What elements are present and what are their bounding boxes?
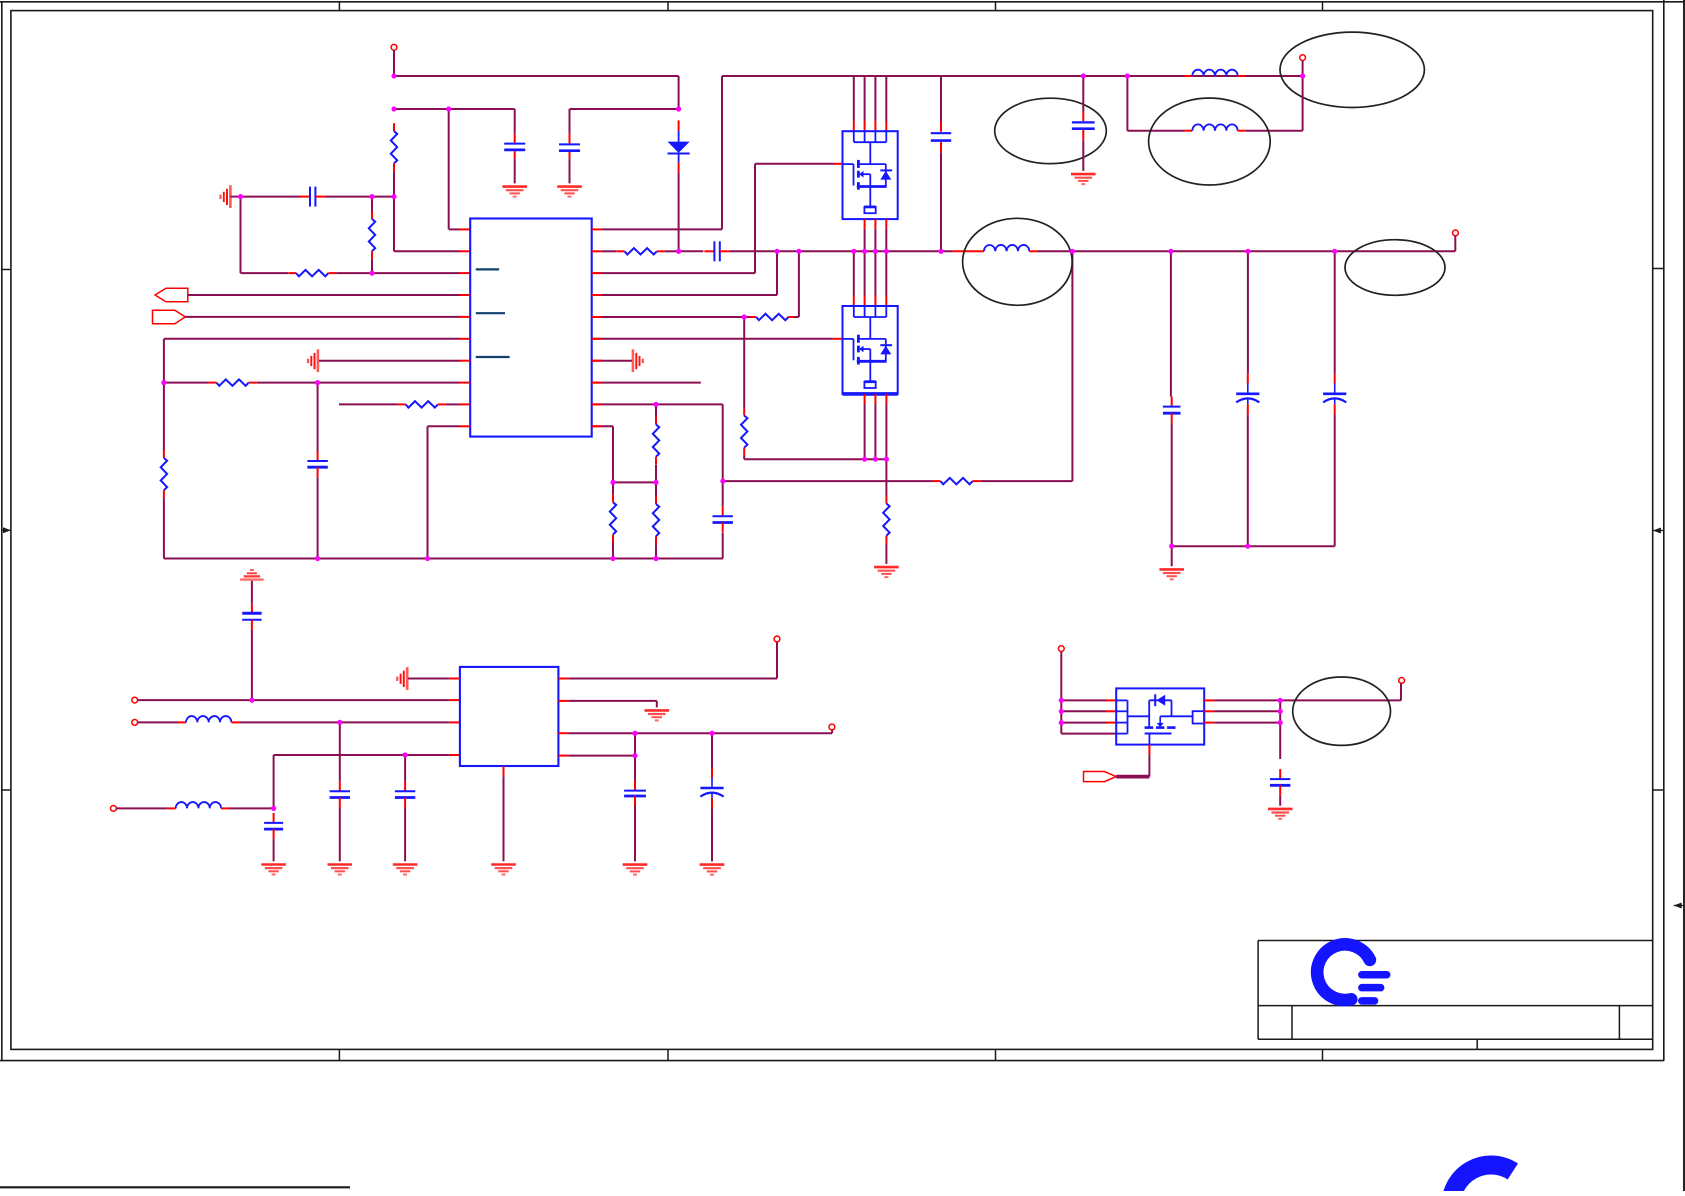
wire C12 risers [404, 755, 406, 861]
inductor L2 humps [1184, 124, 1245, 130]
wire U1 pin16 gate net Q2 [592, 338, 843, 340]
junction dot J35 [1168, 249, 1173, 254]
junction dot J46 [632, 753, 637, 758]
junction dot J36 [1245, 249, 1250, 254]
wire x1280.2 down [1279, 700, 1281, 759]
ground bars G9 [393, 865, 418, 875]
wire L4 to U2 pin3 [239, 721, 460, 723]
junction dot J27 [720, 479, 725, 484]
ellipse E5 [1345, 240, 1445, 296]
zone tick top 4 [1322, 2, 1324, 11]
U1 internal dash 2 [476, 312, 505, 314]
inductor L3 humps [976, 245, 1037, 251]
wire AGND4 to U2 pin1 [408, 678, 460, 680]
wire top rail right segment y=76 [722, 75, 1303, 77]
wire G7 stub [1171, 546, 1173, 566]
wire x635 link [634, 733, 636, 755]
wire T6 to L5 [116, 807, 167, 809]
wire riser x=1127.4 [1126, 76, 1128, 131]
wire C11 risers [339, 722, 341, 861]
U1 internal dash 1 [476, 268, 499, 270]
zone tick bottom 1 [338, 1049, 340, 1060]
capacitor C2 x=569.5 [559, 109, 580, 183]
wire R8 risers [743, 317, 745, 459]
offpage connector tag3 [1084, 772, 1117, 782]
junction dot J50 [1278, 698, 1283, 703]
capacitor C10 plates [242, 603, 261, 630]
junction dot J16 [774, 249, 779, 254]
wire T2 stub [1302, 61, 1304, 77]
ground bars G13 [700, 865, 725, 875]
logo C mark [1317, 944, 1370, 1000]
wire U1 pin10 from below [428, 426, 471, 558]
junction dot J41 [337, 720, 342, 725]
partial next-page rule bottom left [0, 1186, 350, 1188]
wire L1 leads [1127, 75, 1302, 77]
wire R7 riser x=798.9 [744, 251, 799, 317]
logo bar 2 [1358, 984, 1384, 992]
wire pin12 to R6 [602, 250, 617, 252]
resistor R2 zigzag [369, 211, 375, 259]
resistor R9 zigzag [653, 417, 659, 465]
wire R4 to U1 pin8 [257, 382, 471, 384]
capacitor C3 x=941 [931, 76, 951, 251]
AGND4 bars [397, 667, 407, 690]
zone tick bottom 4 [1322, 1049, 1324, 1060]
logo bar 1 [1358, 971, 1390, 979]
wire L3 to output rail [1037, 250, 1455, 252]
junction dot J12 [425, 556, 430, 561]
junction dot J8 [369, 271, 374, 276]
capacitor C15 plates [700, 768, 723, 809]
wire U1 pin14 to riser x=777 [592, 251, 777, 295]
wire U1 pin19 feedback [592, 404, 723, 481]
terminal T9 [1058, 646, 1064, 652]
wire R11 to rail [655, 544, 657, 558]
ground bars G8 [328, 865, 353, 875]
IC U2 box [460, 667, 559, 766]
logo bar 3 [1358, 997, 1378, 1005]
junction dot J33 [1300, 73, 1305, 78]
zone tick left upper [2, 269, 11, 271]
title block lines [1258, 941, 1653, 1050]
wire AGND2 to U1 pin7 [319, 360, 470, 362]
resistor R1 zigzag [391, 123, 397, 171]
ground bars G5 [874, 567, 899, 577]
junction dot J4 [446, 106, 451, 111]
junction dot J22 [938, 249, 943, 254]
junction dot J20 [873, 249, 878, 254]
wire T10 riser [1400, 683, 1402, 700]
capacitor C4 x=1083.3 [1072, 76, 1095, 171]
junction dot J2 [391, 106, 396, 111]
AGND1 bars [221, 185, 231, 208]
resistor R10 vertical x=613 [612, 482, 614, 494]
capacitor C13 plates [264, 813, 283, 839]
capacitor C5 plates [1163, 397, 1181, 424]
wire C16 lower [1279, 796, 1281, 806]
wire T3 riser [1454, 236, 1456, 252]
junction dot J1 [391, 73, 396, 78]
wire R5 to U1 pin9 [446, 403, 470, 405]
bottom rail dots [0, 0, 1, 1]
junction dot J34 [1070, 249, 1075, 254]
node dots y482.4 [0, 0, 1, 1]
capacitor C17 plates [300, 187, 325, 207]
junction dot J40 [249, 698, 254, 703]
zone tick top 1 [338, 2, 340, 11]
zone tick top 3 [995, 2, 997, 11]
terminal T5 [132, 720, 138, 726]
IC U1 main controller box [470, 219, 592, 437]
ground bars G6 [1071, 174, 1096, 184]
wire C8 risers [722, 481, 724, 558]
wire R9 to node y482.4 [655, 465, 657, 482]
wire R6 to node [665, 250, 679, 252]
resistor R10 zigzag [610, 494, 616, 542]
wire R10 to rail [612, 543, 614, 559]
ground bars G7 [1159, 569, 1184, 579]
junction dot J15 [676, 249, 681, 254]
wire U2 right pin8 row y=755.6 [558, 755, 635, 757]
zone tick top 2 [667, 2, 669, 11]
ground bars G10 [261, 865, 286, 875]
wire L2 leads [1127, 76, 1302, 131]
wire Q2 drain leads [854, 251, 887, 306]
resistor R3 zigzag [288, 270, 336, 276]
wire y=109 segment B [570, 108, 679, 110]
wire row y=755 to U2 pin4 [274, 755, 460, 808]
capacitor C7 plates [1323, 374, 1346, 415]
junction dot J19 [862, 249, 867, 254]
offpage connector tag2 (right arrow) [153, 310, 186, 324]
resistor R11 zigzag [653, 496, 659, 544]
wire stub to R5 [339, 403, 398, 405]
junction dot J5 [676, 106, 681, 111]
inductor L5 humps [168, 802, 229, 808]
zone tick left lower [2, 789, 11, 791]
capacitor C16 plates [1270, 769, 1290, 795]
capacitor C6 plates [1236, 374, 1259, 415]
node VIN junction dots [0, 0, 1, 1]
wire Q2 source leads [865, 394, 887, 459]
capacitor C8 plates [713, 506, 733, 532]
wire Q3 right pins [1204, 700, 1401, 722]
junction dot J18 [851, 249, 856, 254]
U1 pin stubs right side [592, 273, 602, 426]
inductor L1 humps [1184, 70, 1245, 76]
wire chassis branch upper [251, 581, 253, 604]
junction dot J17 [796, 249, 801, 254]
junction dot J39 [1245, 544, 1250, 549]
wire gnd rail y=546.2 [1172, 545, 1335, 547]
offpage connector tag1 (left arrow) [155, 288, 188, 302]
node dots y733.2 [0, 0, 1, 1]
wire C13 lower [273, 839, 275, 861]
wire U1 pin1 riser x=448.7 [449, 109, 471, 229]
capacitor C11 plates [330, 781, 350, 807]
wire tag1 to U1 pin4 [188, 294, 470, 296]
wire node x678.6 to C18 [679, 250, 704, 252]
wire D1 to node y251.3 [678, 172, 680, 251]
wire tag2 to U1 pin5 [185, 316, 470, 318]
wire R3 to U1 pin3 [336, 272, 470, 274]
bottom rail y=558.5 [164, 558, 723, 560]
transistor Q2 internals [843, 306, 898, 394]
wire C18 to mosfet rail [730, 250, 953, 252]
wire T5 to L4 [138, 721, 178, 723]
wire Q1 source leads [865, 219, 887, 251]
junction dot J51 [1278, 709, 1283, 714]
wire T1 stub [393, 50, 395, 76]
U1 internal dash 3 [476, 356, 510, 358]
junction dot J37 [1332, 249, 1337, 254]
wire U2 right pin5 to T7 [558, 642, 777, 679]
resistor R6 zigzag [617, 248, 665, 254]
terminal T6 [111, 806, 117, 812]
junction dot J32 [1125, 73, 1130, 78]
wire R12 risers [885, 459, 887, 564]
wire tag3 to Q3 gate (thick) [1116, 745, 1149, 777]
junction dot J52 [1278, 720, 1283, 725]
page edge line right [1683, 0, 1685, 1191]
wire y382.6 left [164, 382, 209, 384]
resistor R9 vertical x=656 [655, 404, 657, 416]
diode D1 vertical x=678.6 [668, 120, 690, 172]
node dots y459.2 [0, 0, 1, 1]
resistor R7 zigzag [748, 314, 796, 320]
junction dot J21 [884, 249, 889, 254]
rail y=251.3 dots [0, 0, 1, 1]
inverted ground bars [240, 570, 264, 580]
junction dot J14 [653, 556, 658, 561]
wire y481.1 to R13 [723, 480, 933, 482]
zone tick bottom 2 [667, 1049, 669, 1060]
terminal T10 [1399, 678, 1405, 684]
wire long net to U1 pin6 [164, 339, 470, 383]
wire feedback loop left x=240.5 [240, 197, 242, 274]
junction dot J38 [1169, 544, 1174, 549]
junction dot J11 [315, 556, 320, 561]
wire U1 pin11 to riser x=722 [592, 76, 722, 229]
terminal T2 [1300, 55, 1306, 61]
wire chassis branch lower [251, 630, 253, 700]
junction dot J24 [653, 402, 658, 407]
junction dot J48 [1059, 709, 1064, 714]
wire y=273.1 left of R3 [241, 272, 289, 274]
terminal T3 [1453, 230, 1459, 236]
junction dot J13 [610, 556, 615, 561]
AGND3 bars [633, 349, 643, 372]
resistor R8 zigzag [741, 408, 747, 456]
wire U1 pin20 to x=613 [592, 426, 613, 482]
junction dot J6 [238, 194, 243, 199]
terminal T4 [132, 697, 138, 703]
zone tick bottom 3 [995, 1049, 997, 1060]
zone tick right upper [1653, 268, 1664, 270]
junction dot J43 [271, 806, 276, 811]
junction dot J45 [709, 731, 714, 736]
junction dot J49 [1059, 720, 1064, 725]
resistor R13 zigzag [933, 478, 981, 484]
junction dot J47 [1059, 698, 1064, 703]
resistor R12 zigzag [883, 496, 889, 544]
resistor R11 vertical x=656 [655, 482, 657, 496]
ellipse E1 [995, 98, 1107, 163]
centre arrow page edge [1674, 903, 1682, 909]
wire Q1 drain leads [854, 76, 887, 131]
junction dot J23 [742, 314, 747, 319]
junction dot J25 [610, 480, 615, 485]
ground bars G11 [645, 710, 670, 720]
ellipse E4 [963, 218, 1073, 305]
wire C15 risers [711, 733, 713, 861]
node dots Q3 output [0, 0, 1, 1]
wire U2 bottom pin to G14 [503, 766, 505, 861]
wire C17 to nodes [325, 196, 394, 198]
wire R2 stubs [371, 197, 373, 274]
wire U2 right pin6 to G11 [558, 701, 656, 708]
resistor R4 zigzag [209, 379, 257, 385]
wire U1 pin18 dead end [592, 382, 701, 384]
wire C6 risers [1247, 251, 1249, 546]
wire T9 down to Q3 rows [1061, 652, 1116, 734]
wire U1 pin12 stub [592, 250, 602, 252]
wire U1 pin15 to R7 [592, 316, 745, 318]
partial next-page logo C mark [1451, 1165, 1513, 1196]
inductor L3 y=251.3 [953, 250, 976, 252]
gnd rail dots [0, 0, 1, 1]
wire AGND1 to C17 [230, 196, 301, 198]
node dots Q3 input [0, 0, 1, 1]
wire T4 to U2 pin2 [138, 699, 460, 701]
zone tick right lower [1653, 789, 1664, 791]
wire y=109 segment A [394, 108, 515, 110]
wire U2 right pin7 row y=733.2 [558, 730, 832, 733]
capacitor C1 x=514.7 [504, 109, 525, 183]
wire R13 riser x=1072.4 [981, 251, 1073, 481]
junction dot J9 [161, 380, 166, 385]
junction dot J26 [653, 480, 658, 485]
transistor Q3 block [1116, 688, 1204, 744]
ellipse E3 [1280, 32, 1424, 107]
wire top rail left segment y=76 [394, 76, 679, 109]
wire C5 risers [1170, 251, 1173, 546]
wire C7 risers [1334, 251, 1336, 546]
wire C14 risers [634, 756, 636, 862]
resistor R14 zigzag [161, 450, 167, 498]
junction dot J10 [315, 380, 320, 385]
terminal T7 [774, 636, 780, 642]
junction dot J29 [873, 457, 878, 462]
wire x394 down to U1 pin2 [394, 197, 470, 252]
junction dot J44 [632, 731, 637, 736]
wire Q2 source row y=459.2 [744, 458, 886, 460]
junction dot J31 [1081, 73, 1086, 78]
ground bars G15 [1268, 809, 1293, 819]
centre arrow left border [3, 527, 11, 533]
wire link y482.4 [613, 481, 656, 483]
output rail dots [0, 0, 1, 1]
wire U1 pin17 to AGND3 [592, 360, 632, 362]
capacitor C12 plates [395, 781, 415, 807]
ground bars G12 [623, 865, 648, 875]
junction dot J30 [884, 457, 889, 462]
terminal T8 [829, 724, 835, 730]
junction dot J7 [369, 194, 374, 199]
junction dot J28 [862, 457, 867, 462]
wire U1 pin13 gate net Q1 [592, 164, 843, 273]
junction dot J42 [403, 752, 408, 757]
inductor L4 humps [178, 716, 239, 722]
capacitor C9 plates [307, 451, 327, 477]
terminal T1 top left [391, 44, 397, 50]
ground bars G2 [557, 187, 582, 197]
wire x163.9 to bottom rail [163, 383, 165, 559]
AGND2 bars [308, 349, 318, 372]
ground bars G14 [491, 865, 516, 875]
resistor R5 zigzag [398, 401, 446, 407]
capacitor C14 plates [624, 781, 646, 806]
wire R1 to node y196.6 [393, 171, 395, 196]
capacitor C18 plates [704, 241, 729, 261]
ellipse E2 [1149, 98, 1271, 185]
ground bars G1 [502, 187, 527, 197]
centre arrow right border [1653, 528, 1661, 534]
wire C9 risers [317, 383, 319, 559]
wire L5 to node [229, 807, 274, 809]
ellipse E6 [1293, 677, 1391, 745]
junction dot J3 [391, 194, 396, 199]
transistor Q1 internals [843, 131, 898, 219]
